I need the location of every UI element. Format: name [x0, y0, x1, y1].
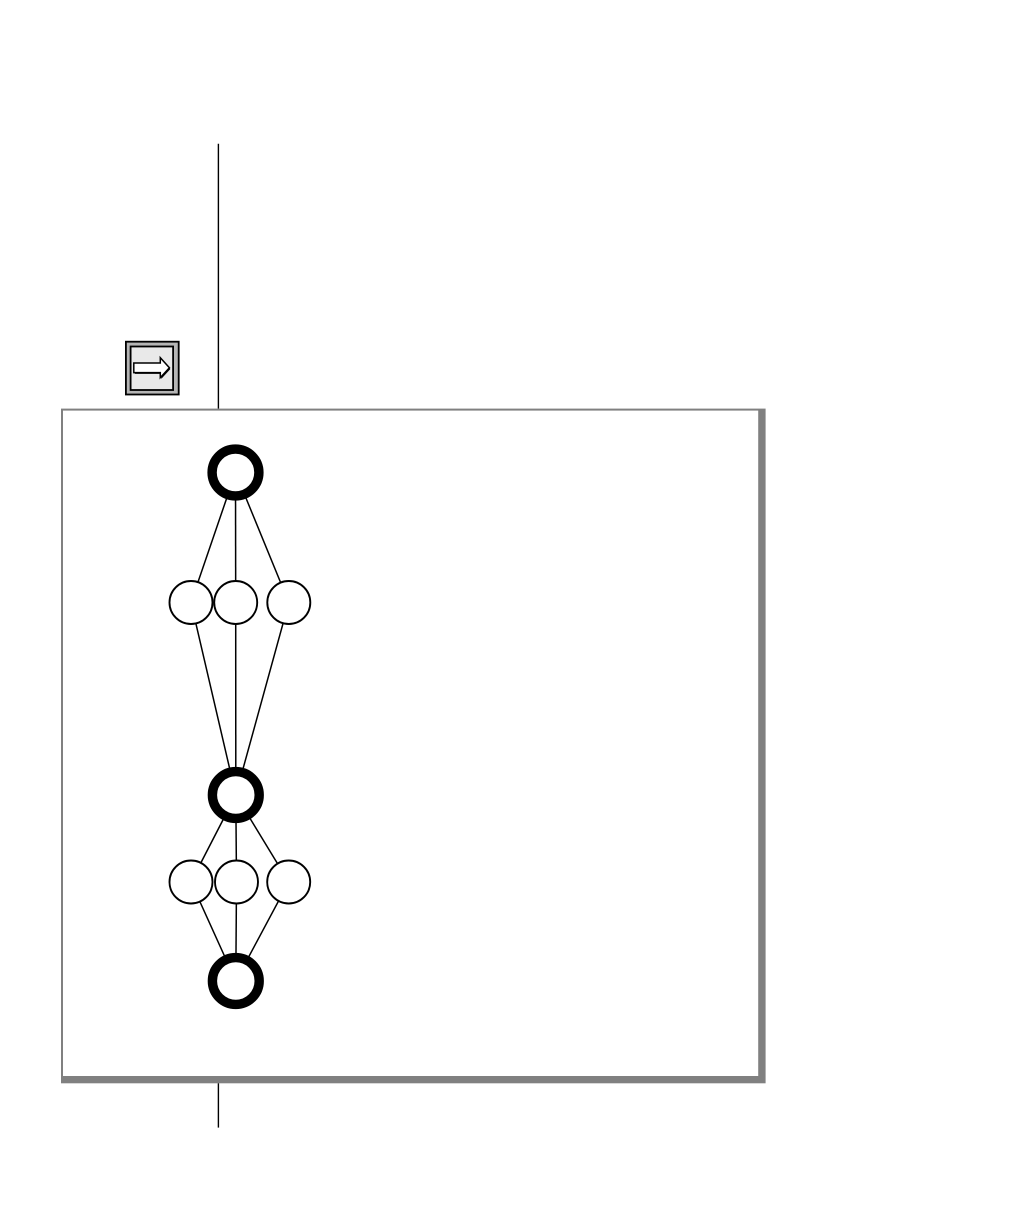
- lower-right circle: [267, 861, 310, 904]
- column rule (top segment): [217, 144, 219, 409]
- edge lower-left circle to bottom node: [191, 882, 236, 981]
- edge upper-left circle to middle node: [191, 603, 236, 796]
- anchored frame: gray border: [61, 409, 766, 1084]
- upper-middle circle: [214, 581, 257, 624]
- edge top node to upper-left circle: [191, 473, 236, 603]
- edge top node to upper-middle circle: [235, 473, 237, 603]
- top node (bold circle): [212, 449, 259, 496]
- edge middle node to lower-right circle: [236, 795, 289, 882]
- lower-middle circle: [215, 861, 258, 904]
- edge upper-right circle to middle node: [236, 603, 289, 796]
- next-page arrow icon: arrow: [134, 358, 170, 378]
- bottom node (bold circle): [212, 958, 259, 1005]
- edge middle node to lower-middle circle: [235, 795, 238, 882]
- edge middle node to lower-left circle: [191, 795, 236, 882]
- next-page arrow icon: arrow shadow: [135, 359, 171, 379]
- middle node (bold circle): [212, 772, 259, 819]
- column rule (bottom segment): [217, 1083, 219, 1127]
- next-page arrow icon: outer square: [126, 342, 179, 395]
- edge lower-right circle to bottom node: [236, 882, 289, 981]
- edge top node to upper-right circle: [236, 473, 289, 603]
- edge upper-middle circle to middle node: [235, 603, 237, 796]
- upper-left circle: [170, 581, 213, 624]
- anchored frame: white interior: [63, 411, 758, 1076]
- upper-right circle: [267, 581, 310, 624]
- next-page arrow icon: inner panel: [131, 347, 174, 391]
- lower-left circle: [170, 861, 213, 904]
- edge lower-middle circle to bottom node: [235, 882, 238, 981]
